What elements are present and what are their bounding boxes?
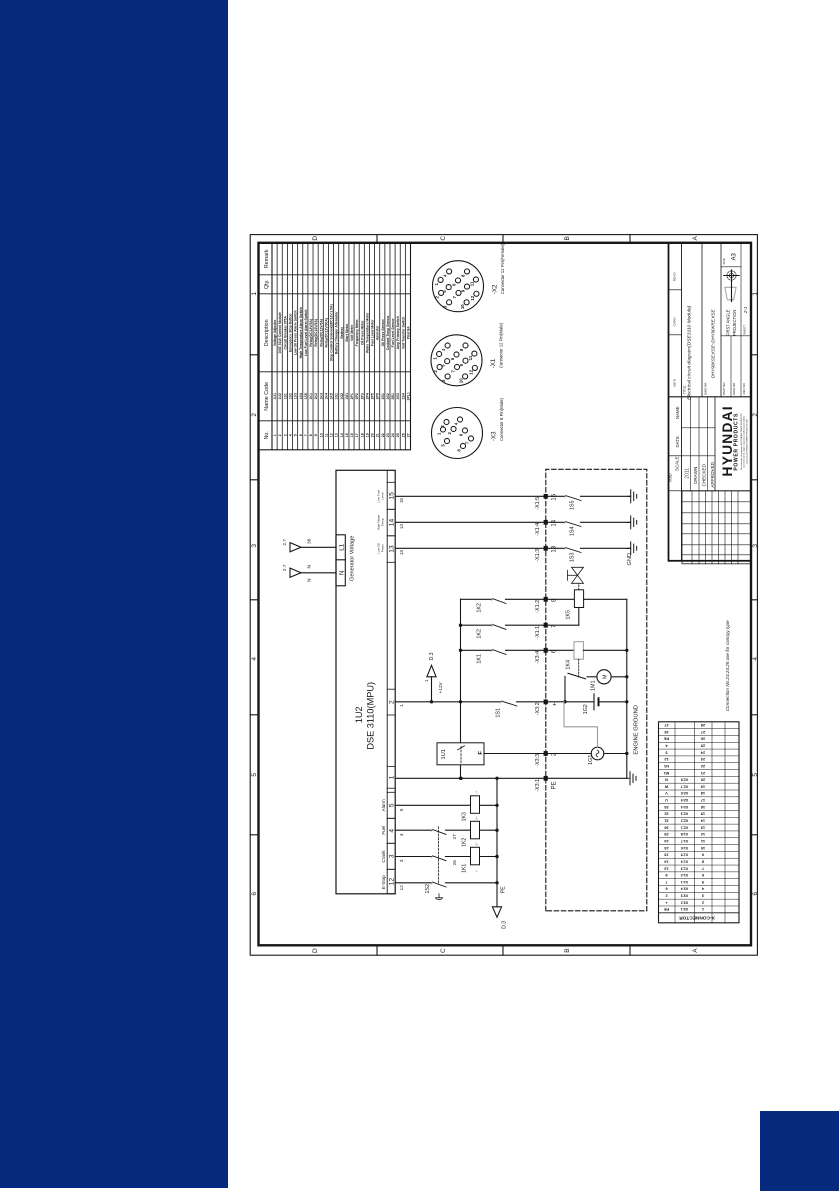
svg-text:Relay(DC12V/5A): Relay(DC12V/5A) (314, 319, 318, 347)
svg-text:-X3:3: -X3:3 (535, 754, 541, 767)
svg-text:3PL1: 3PL1 (406, 392, 410, 400)
svg-text:11: 11 (468, 355, 473, 360)
commons bus to D.3 (492, 778, 507, 928)
svg-text:10: 10 (701, 846, 705, 851)
svg-text:X2:4: X2:4 (681, 805, 689, 809)
svg-text:Connector 12 Pin(Female): Connector 12 Pin(Female) (500, 243, 505, 294)
svg-text:Pilot B4: Pilot B4 (406, 326, 410, 339)
svg-text:Volt Transfer Switch: Volt Transfer Switch (401, 317, 405, 349)
pin -X3:3 (535, 751, 558, 767)
svg-text:10: 10 (459, 378, 464, 383)
svg-text:Circuit Breaker 075A: Circuit Breaker 075A (283, 316, 287, 350)
svg-text:X2:5: X2:5 (681, 798, 689, 802)
wire net labels at strip (399, 498, 404, 891)
svg-text:-X1: -X1 (490, 358, 497, 368)
title block right: first angle projection cell (724, 243, 741, 336)
svg-text:No.: No. (264, 431, 270, 439)
HYUNDAI logo (720, 405, 748, 476)
svg-text:27: 27 (701, 730, 705, 735)
zone numbers bottom band (751, 292, 759, 896)
svg-text:2: 2 (752, 413, 759, 417)
svg-text:1: 1 (424, 679, 429, 682)
svg-text:1S4: 1S4 (299, 393, 303, 399)
svg-text:1U1: 1U1 (441, 749, 447, 760)
fuel solenoid valve (568, 567, 584, 590)
wire terminal 2 battery plus (395, 700, 501, 703)
svg-text:1S3: 1S3 (294, 393, 298, 399)
svg-text:Oil Press Meter: Oil Press Meter (360, 320, 364, 345)
svg-text:Stop Control Solenoid(DC12V,1.: Stop Control Solenoid(DC12V,1.5A) (330, 304, 334, 361)
svg-text:5: 5 (294, 434, 298, 436)
svg-text:1: 1 (273, 434, 277, 436)
svg-text:1K1: 1K1 (309, 393, 313, 399)
svg-text:2: 2 (389, 700, 396, 704)
wire terminal 5 to coil 1K3 (395, 804, 470, 806)
svg-text:X1:7: X1:7 (681, 839, 689, 843)
starter motor 1M1 (591, 670, 627, 691)
svg-text:Battery: Battery (340, 327, 344, 339)
svg-text:1K1: 1K1 (462, 864, 468, 873)
svg-text:X3:1: X3:1 (681, 907, 689, 911)
svg-text:POWER PRODUCTS: POWER PRODUCTS (734, 413, 740, 471)
svg-text:-X1:5: -X1:5 (535, 497, 541, 510)
svg-text:Crank: Crank (381, 850, 386, 863)
svg-text:2P6: 2P6 (376, 393, 380, 399)
svg-text:X2:6: X2:6 (681, 791, 689, 795)
pin -X1:5 (535, 493, 558, 509)
svg-text:2.7: 2.7 (282, 539, 288, 546)
svg-text:SHEET: SHEET (743, 325, 747, 335)
svg-text:and shall not be copied, repro: and shall not be copied, reproduced with… (743, 415, 746, 467)
svg-text:MO'D: MO'D (673, 378, 677, 386)
generator voltage cells N / L1 (336, 535, 356, 586)
svg-text:X1:1: X1:1 (681, 880, 689, 884)
ground for 1S5 (628, 490, 637, 503)
wire contact bus v212 (459, 599, 462, 780)
svg-text:X1:4: X1:4 (681, 859, 689, 863)
svg-text:1S4: 1S4 (570, 527, 576, 537)
svg-text:PE: PE (664, 737, 670, 742)
svg-text:+12V: +12V (438, 681, 444, 693)
battery 1G2 (563, 694, 627, 715)
pin -X1:2 (535, 597, 558, 613)
svg-text:17: 17 (355, 433, 359, 437)
svg-text:Fuel Level Sensor: Fuel Level Sensor (391, 318, 395, 348)
switch 1S4 (564, 521, 630, 536)
svg-text:27: 27 (406, 433, 410, 437)
svg-text:21: 21 (376, 433, 380, 437)
svg-text:High Temperature Alarm Switch: High Temperature Alarm Switch (299, 307, 303, 358)
connector -X1 (431, 322, 504, 385)
svg-text:1S5: 1S5 (570, 501, 576, 511)
svg-text:V: V (665, 791, 668, 796)
svg-text:15: 15 (399, 498, 404, 504)
switch 1S3 (564, 547, 630, 562)
svg-text:1: 1 (752, 292, 759, 296)
title block right: sheet + size cells (721, 252, 748, 334)
svg-text:D: D (312, 948, 319, 953)
svg-text:GND: GND (627, 553, 633, 565)
svg-text:24: 24 (391, 433, 395, 437)
svg-text:18: 18 (360, 433, 364, 437)
pin -X3:4 (535, 648, 558, 664)
wire 1K2 contact to -X1:2 (461, 598, 575, 612)
ground for 1S4 (628, 516, 637, 529)
svg-text:17: 17 (701, 798, 705, 803)
svg-text:10: 10 (460, 304, 465, 309)
svg-text:E-Stop: E-Stop (381, 875, 386, 889)
svg-text:1K2: 1K2 (477, 603, 483, 613)
svg-text:-X1:4: -X1:4 (535, 523, 541, 536)
svg-text:X2:7: X2:7 (681, 784, 689, 788)
wire 1K2 contact to -X1:1 (461, 608, 579, 639)
svg-text:2B1: 2B1 (391, 393, 395, 399)
svg-text:1: 1 (399, 704, 404, 707)
svg-text:12: 12 (330, 433, 334, 437)
wire -X3:3 to alternator (546, 753, 591, 755)
relay coil 1K5 (566, 590, 627, 620)
svg-text:36: 36 (307, 538, 313, 544)
svg-text:M1: M1 (663, 771, 669, 776)
svg-text:Start Motor: Start Motor (345, 323, 349, 342)
wire terminal 4 to coil 1K2 (395, 829, 470, 839)
svg-text:3: 3 (389, 854, 396, 858)
svg-text:1U2: 1U2 (354, 706, 364, 723)
svg-text:PART NO: PART NO (722, 382, 726, 395)
title block left: drawn/checked/approved sub-table (682, 397, 752, 491)
svg-text:Level: Level (381, 492, 385, 500)
title block revision band (669, 272, 682, 491)
svg-text:B: B (564, 236, 571, 240)
svg-text:1M1: 1M1 (345, 393, 349, 400)
svg-text:1G1: 1G1 (588, 755, 594, 765)
svg-text:PE: PE (501, 886, 507, 893)
svg-text:DSE 3110(MPU): DSE 3110(MPU) (366, 682, 376, 750)
svg-text:N: N (338, 571, 345, 575)
svg-text:Alarm: Alarm (381, 799, 386, 811)
svg-text:N: N (307, 565, 313, 569)
svg-text:13: 13 (389, 545, 396, 553)
svg-text:1G2: 1G2 (340, 393, 344, 400)
svg-text:D.3: D.3 (502, 921, 508, 929)
svg-text:10: 10 (319, 433, 323, 437)
svg-text:9: 9 (314, 434, 318, 436)
svg-text:consent by HYUNDAI POWER PRODU: consent by HYUNDAI POWER PRODUCTS LTD (745, 419, 748, 464)
svg-text:2011: 2011 (685, 468, 691, 479)
DSE module 1U2 block (336, 470, 395, 894)
svg-text:-X3:2: -X3:2 (535, 702, 541, 715)
connector -X2 (433, 243, 506, 311)
svg-text:3: 3 (752, 544, 759, 548)
svg-text:PE: PE (552, 781, 558, 789)
parts list table (259, 243, 411, 450)
svg-text:X-CONNECTOR: X-CONNECTOR (679, 914, 715, 920)
relay coil 1K2 (462, 816, 498, 847)
svg-text:Qty.: Qty. (264, 280, 270, 289)
svg-text:6: 6 (299, 434, 303, 436)
svg-text:X3:3: X3:3 (681, 894, 689, 898)
svg-text:X3:4: X3:4 (681, 887, 689, 891)
svg-text:12: 12 (468, 369, 473, 374)
svg-text:1K4: 1K4 (566, 660, 572, 670)
svg-text:22: 22 (381, 433, 385, 437)
title block right: TITLE row (683, 243, 703, 400)
connector -X3 (432, 397, 505, 458)
svg-text:C: C (440, 236, 447, 241)
svg-text:27: 27 (452, 834, 457, 840)
svg-text:Oil Press Sensor: Oil Press Sensor (381, 319, 385, 347)
svg-text:1S1: 1S1 (283, 393, 287, 399)
voltage adjuster 1U1 (437, 743, 484, 765)
ground for 1S3 (628, 542, 637, 555)
svg-text:Voltage Adjuster: Voltage Adjuster (273, 319, 277, 346)
svg-text:Battery Charger Alternator: Battery Charger Alternator (335, 311, 339, 354)
svg-text:L1: L1 (338, 543, 345, 550)
svg-text:Volt Meter: Volt Meter (350, 324, 354, 341)
starter contact 1M1 (565, 673, 597, 702)
title block right: part/dwg/rev no cells (721, 336, 751, 397)
svg-text:N1: N1 (663, 764, 669, 769)
svg-text:CH'KD: CH'KD (673, 316, 677, 326)
relay coil 1K4 (566, 642, 627, 678)
svg-text:2: 2 (251, 413, 258, 417)
svg-text:SCALE: SCALE (675, 457, 680, 471)
svg-text:DSE 3110 Control Module: DSE 3110 Control Module (278, 312, 282, 353)
svg-text:30: 30 (664, 825, 668, 830)
svg-text:Connector 8 Pin(Male): Connector 8 Pin(Male) (499, 397, 504, 441)
emergency stop 1S2 (395, 826, 497, 900)
DSE terminal cells (387, 482, 395, 894)
svg-text:Amp Primary Switch: Amp Primary Switch (396, 316, 400, 349)
svg-text:7: 7 (702, 866, 704, 871)
svg-text:-X3:1: -X3:1 (535, 779, 541, 792)
svg-text:Name Code: Name Code (264, 382, 270, 411)
svg-text:1K2: 1K2 (314, 393, 318, 399)
svg-text:Relay(DC12V/30A): Relay(DC12V/30A) (324, 318, 328, 347)
node L1 sense wire (282, 538, 336, 551)
svg-text:+: + (552, 702, 559, 706)
main engine ground symbol (627, 772, 636, 785)
svg-text:27: 27 (664, 723, 668, 728)
zone letters left band (312, 945, 699, 955)
svg-text:26: 26 (401, 433, 405, 437)
svg-text:1K1: 1K1 (477, 654, 483, 664)
engine ground dashed enclosure (546, 469, 647, 911)
svg-text:N: N (665, 778, 668, 783)
svg-text:2S2: 2S2 (386, 393, 390, 399)
title block frame (669, 243, 752, 561)
svg-text:1K2: 1K2 (477, 629, 483, 639)
svg-text:14: 14 (389, 519, 396, 527)
svg-text:3: 3 (283, 434, 287, 436)
svg-text:1M1: 1M1 (591, 681, 597, 692)
svg-text:Generator Voltage: Generator Voltage (350, 536, 356, 581)
svg-text:4: 4 (399, 833, 404, 836)
svg-text:X1:3: X1:3 (681, 866, 689, 870)
relay coil 1K3 (462, 790, 498, 821)
pin -X3:2 (535, 699, 559, 715)
svg-text:DWG NO: DWG NO (732, 382, 736, 395)
X-CONNECTOR table (659, 722, 740, 923)
svg-text:16: 16 (350, 433, 354, 437)
svg-text:20: 20 (371, 433, 375, 437)
svg-text:1U2: 1U2 (278, 393, 282, 399)
svg-text:1S2: 1S2 (425, 884, 431, 894)
svg-text:2S3: 2S3 (396, 393, 400, 399)
svg-text:14: 14 (399, 524, 404, 530)
wire terminal 3 to coil 1K1 (395, 855, 470, 865)
svg-text:Water Temperature Meter: Water Temperature Meter (365, 312, 369, 353)
svg-text:4: 4 (251, 657, 258, 661)
svg-text:DRAWN: DRAWN (693, 467, 698, 484)
svg-text:ENGINE GROUND: ENGINE GROUND (634, 705, 640, 755)
svg-text:1: 1 (389, 775, 396, 779)
svg-text:PROJECTION: PROJECTION (732, 310, 737, 336)
svg-text:4: 4 (752, 657, 759, 661)
svg-text:Coolant Temp Sensor: Coolant Temp Sensor (386, 315, 390, 350)
svg-text:13: 13 (399, 550, 404, 556)
svg-text:11: 11 (469, 281, 474, 286)
svg-text:12: 12 (399, 885, 404, 891)
switch 1S1 start (496, 701, 595, 718)
svg-text:1K5: 1K5 (330, 393, 334, 399)
svg-text:1S5: 1S5 (304, 393, 308, 399)
svg-text:D.3: D.3 (429, 652, 435, 660)
svg-text:X1:5: X1:5 (681, 853, 689, 857)
svg-text:13: 13 (335, 433, 339, 437)
svg-text:15: 15 (389, 492, 396, 500)
svg-text:Relay(DC12V/5A): Relay(DC12V/5A) (319, 319, 323, 347)
alternator 1G1 (588, 747, 627, 765)
svg-text:Press: Press (381, 544, 385, 552)
svg-text:19: 19 (365, 433, 369, 437)
wire terminal 15 to -X1:5 (395, 495, 565, 497)
svg-text:2.7: 2.7 (282, 564, 288, 571)
svg-text:3: 3 (399, 859, 404, 862)
svg-text:Remark: Remark (264, 249, 270, 268)
svg-text:2: 2 (278, 434, 282, 436)
title block right: DWG row (704, 243, 722, 397)
svg-text:Frequency Meter: Frequency Meter (355, 319, 359, 347)
svg-text:6: 6 (752, 892, 759, 896)
svg-text:PE: PE (664, 907, 670, 912)
svg-text:2S4: 2S4 (401, 393, 405, 399)
svg-text:2S1: 2S1 (381, 393, 385, 399)
svg-text:15: 15 (552, 493, 558, 500)
svg-text:7: 7 (304, 434, 308, 436)
svg-text:1U1: 1U1 (273, 393, 277, 399)
svg-text:3: 3 (251, 544, 258, 548)
DSE block labels (354, 682, 376, 750)
svg-text:C: C (440, 948, 447, 953)
svg-text:4: 4 (288, 434, 292, 436)
wire terminal 1 PE (395, 777, 546, 780)
engine ground bus (625, 599, 628, 778)
svg-text:5: 5 (399, 808, 404, 811)
svg-text:14: 14 (552, 519, 558, 526)
svg-text:Description: Description (264, 319, 270, 346)
svg-text:X2:8: X2:8 (681, 778, 689, 782)
DSE terminal function labels (377, 490, 386, 890)
svg-text:Connection No.23,24,25 use for: Connection No.23,24,25 use for canopy ty… (725, 620, 730, 711)
svg-text:Connector 12 Pin(Male): Connector 12 Pin(Male) (499, 322, 504, 368)
wire 1K1 contact to -X3:4 (461, 649, 575, 663)
svg-text:DWG NR: DWG NR (704, 382, 708, 395)
svg-text:1K3: 1K3 (319, 393, 323, 399)
zone letters right band (312, 235, 699, 243)
title block bottom-left revision grid (682, 491, 751, 564)
svg-text:CHECKED: CHECKED (702, 463, 707, 486)
svg-text:M: M (602, 674, 608, 679)
switch 1S5 (564, 495, 630, 510)
svg-text:8: 8 (309, 434, 313, 436)
svg-text:-X3:4: -X3:4 (535, 651, 541, 664)
svg-text:Emergency Stop Button: Emergency Stop Button (288, 313, 292, 352)
svg-text:-X1:2: -X1:2 (535, 600, 541, 613)
svg-text:20: 20 (701, 778, 705, 783)
svg-text:Fuel Level Meter: Fuel Level Meter (371, 319, 375, 346)
svg-text:X3:2: X3:2 (681, 900, 689, 904)
svg-text:This document is property of H: This document is property of HYUNDAI POW… (740, 413, 743, 470)
svg-text:Low Oil Press Alarm Switch: Low Oil Press Alarm Switch (294, 310, 298, 355)
svg-text:5: 5 (251, 773, 258, 777)
svg-text:7: 7 (665, 880, 667, 885)
relay coil 1K1 (462, 842, 498, 873)
svg-text:5: 5 (752, 773, 759, 777)
svg-text:2-1: 2-1 (743, 306, 748, 314)
svg-text:1: 1 (251, 292, 258, 296)
svg-text:1S3: 1S3 (570, 553, 576, 563)
svg-text:1G1: 1G1 (335, 393, 339, 400)
svg-text:FIRST ANGLE: FIRST ANGLE (726, 309, 731, 336)
svg-text:DHY90KSE,KSE~DHY90KRE,KSE: DHY90KSE,KSE~DHY90KRE,KSE (711, 309, 716, 378)
wire 1U1 F to -X3:3 (484, 753, 546, 755)
svg-text:5: 5 (389, 803, 396, 807)
svg-text:REV'D: REV'D (673, 272, 677, 282)
+12V supply arrow (424, 652, 444, 702)
svg-text:2P5: 2P5 (371, 393, 375, 399)
svg-text:23: 23 (386, 433, 390, 437)
sheet inner thick border (259, 243, 752, 946)
svg-text:W: W (664, 784, 668, 789)
svg-text:14: 14 (340, 433, 344, 437)
wire terminal 14 to -X1:4 (395, 521, 565, 523)
svg-text:2P2: 2P2 (355, 393, 359, 399)
svg-text:DATE: DATE (675, 436, 680, 447)
svg-text:1K5: 1K5 (566, 610, 572, 620)
pin -X3:1 (535, 776, 558, 792)
svg-text:A: A (692, 235, 699, 240)
svg-text:Temp: Temp (381, 518, 385, 526)
svg-text:11: 11 (324, 433, 328, 437)
svg-text:15: 15 (345, 433, 349, 437)
svg-text:SIZE: SIZE (722, 258, 726, 264)
svg-text:-X2: -X2 (492, 284, 499, 294)
pin -X1:4 (535, 519, 558, 535)
svg-text:2P3: 2P3 (360, 393, 364, 399)
zone numbers top band (250, 292, 258, 896)
svg-text:1S2: 1S2 (288, 393, 292, 399)
svg-text:1G2: 1G2 (583, 704, 589, 714)
svg-text:1K2: 1K2 (462, 838, 468, 847)
left blue band (0, 0, 228, 1188)
svg-text:NAME: NAME (675, 406, 680, 419)
svg-text:APPROVED: APPROVED (710, 461, 715, 487)
svg-text:12: 12 (470, 295, 475, 300)
svg-text:TITLE: TITLE (683, 385, 687, 394)
svg-text:VOID: VOID (669, 473, 673, 482)
svg-text:A3: A3 (732, 252, 738, 260)
